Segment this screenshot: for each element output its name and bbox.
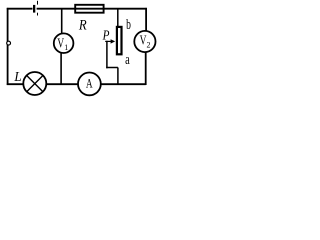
switch (small circle terminal on left rail) [7,41,11,45]
svg-text:a: a [125,50,130,67]
battery cell: long thin positive plate (upper tick) [37,1,38,5]
ammeter A circle [78,73,101,96]
wire right vertical lower (V2 bottom to bottom-right corner) [145,52,147,86]
wire bottom rail [7,83,146,85]
lamp L circle [23,72,46,95]
svg-text:2: 2 [147,40,151,49]
svg-text:P: P [102,28,110,43]
lamp L cross stroke 2 [27,76,43,92]
battery cell: long thin positive plate (lower tick) [37,13,38,16]
svg-text:A: A [86,77,93,91]
lamp L cross stroke 1 [27,76,43,92]
rheostat / slide resistor body [117,27,122,54]
wire rheostat top lead (junction on top rail down to terminal b end) [117,9,119,27]
wire wiper drop to bottom rail (junction on bottom rail) [117,68,119,85]
voltmeter V1 circle [54,33,74,53]
wire V1 top lead (junction on top rail down to V1) [61,9,63,35]
voltmeter V2 label [140,32,151,50]
wire left rail (top-left corner down to bottom-left corner) [7,8,9,85]
battery cell: short thick negative plate [33,5,35,13]
svg-text:L: L [13,68,21,84]
wire top rail left segment (battery left) [7,8,33,10]
resistor R (box on top rail) [75,5,103,13]
wire wiper drop (from wiper arrow down) [106,41,108,69]
svg-text:b: b [126,16,131,33]
wire V1 bottom lead (V1 down to junction on bottom rail) [60,53,62,84]
svg-text:R: R [78,18,87,34]
svg-text:1: 1 [64,43,68,52]
wire wiper step horizontal [106,67,118,69]
voltmeter V2 circle [134,31,155,52]
rheostat wiper arrow P [105,39,115,43]
wire right vertical upper (top-right corner to V2 top) [145,8,147,32]
wire top rail right segment (battery to top-right corner, passes through R box) [37,8,147,10]
voltmeter V1 label [57,35,68,52]
